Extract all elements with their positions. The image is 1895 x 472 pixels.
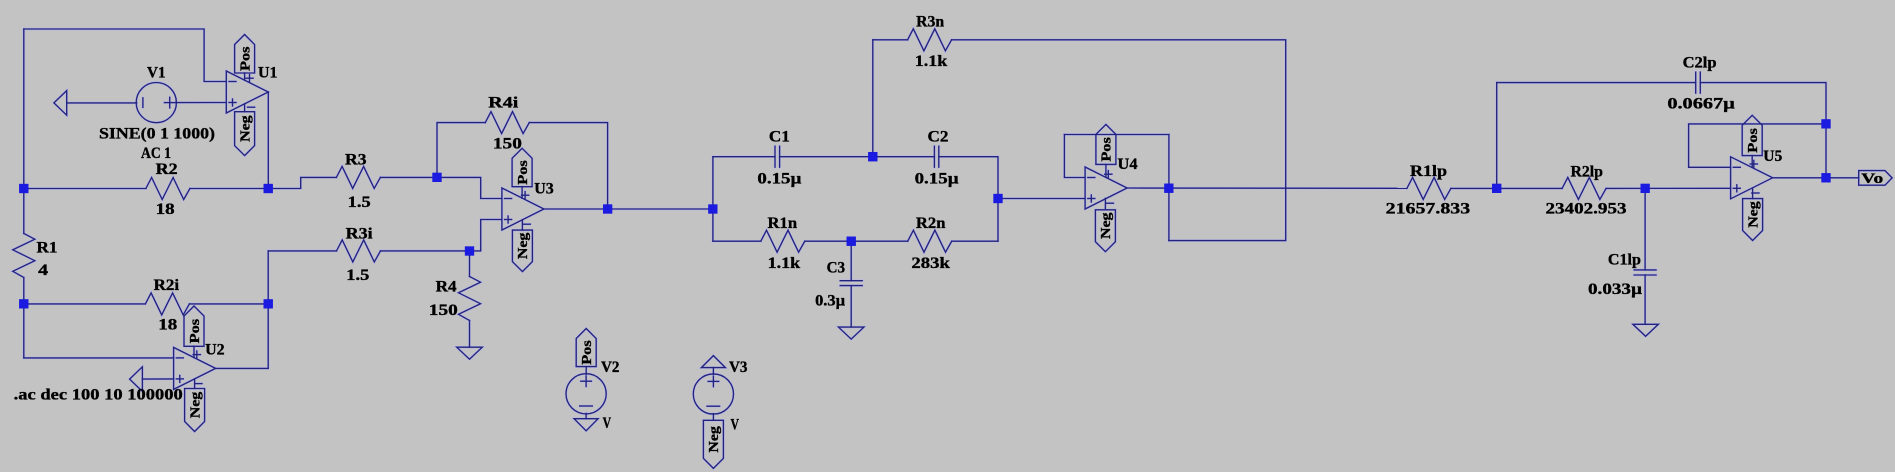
svg-text:0.033µ: 0.033µ	[1588, 281, 1642, 298]
svg-text:18: 18	[158, 316, 177, 333]
svg-text:C1lp: C1lp	[1608, 252, 1641, 269]
svg-text:R2n: R2n	[916, 215, 946, 232]
svg-text:4: 4	[38, 262, 48, 279]
svg-text:18: 18	[156, 201, 175, 218]
svg-text:283k: 283k	[911, 255, 950, 272]
svg-text:21657.833: 21657.833	[1386, 200, 1471, 217]
svg-text:.ac dec 100 10 100000: .ac dec 100 10 100000	[14, 386, 183, 403]
svg-text:Pos: Pos	[1746, 128, 1761, 153]
svg-text:C1: C1	[769, 128, 790, 145]
svg-text:Neg: Neg	[188, 392, 203, 419]
svg-text:150: 150	[493, 135, 522, 152]
svg-text:C2: C2	[928, 128, 949, 145]
svg-text:R2lp: R2lp	[1570, 163, 1603, 180]
svg-text:V2: V2	[601, 359, 620, 376]
svg-text:C2lp: C2lp	[1683, 54, 1717, 71]
svg-text:C3: C3	[827, 260, 846, 277]
svg-text:R3i: R3i	[346, 226, 374, 243]
svg-text:U3: U3	[534, 181, 554, 198]
svg-text:Neg: Neg	[1099, 213, 1114, 240]
svg-text:Vo: Vo	[1861, 171, 1883, 187]
svg-text:V1: V1	[147, 65, 166, 82]
svg-text:V: V	[603, 415, 612, 432]
svg-text:Neg: Neg	[1746, 201, 1761, 228]
svg-text:150: 150	[429, 302, 458, 319]
svg-text:R1: R1	[37, 240, 58, 257]
svg-text:1.5: 1.5	[348, 194, 371, 211]
svg-text:R1n: R1n	[768, 215, 798, 232]
svg-text:R2i: R2i	[154, 277, 180, 294]
svg-text:V3: V3	[729, 359, 748, 376]
svg-text:Pos: Pos	[238, 46, 253, 71]
svg-text:Neg: Neg	[707, 426, 722, 453]
svg-text:R1lp: R1lp	[1410, 163, 1447, 180]
svg-text:0.3µ: 0.3µ	[815, 293, 845, 310]
svg-text:0.15µ: 0.15µ	[757, 170, 801, 187]
svg-text:23402.953: 23402.953	[1546, 201, 1627, 218]
svg-text:1.1k: 1.1k	[915, 53, 948, 70]
svg-text:Pos: Pos	[188, 318, 203, 343]
svg-text:Pos: Pos	[580, 340, 595, 365]
svg-text:U2: U2	[205, 342, 225, 359]
svg-text:R3: R3	[345, 151, 367, 168]
svg-text:V: V	[731, 416, 740, 433]
svg-text:Pos: Pos	[1100, 137, 1115, 162]
svg-text:R4i: R4i	[488, 95, 519, 112]
svg-text:U4: U4	[1118, 156, 1138, 173]
svg-text:SINE(0 1 1000): SINE(0 1 1000)	[99, 126, 215, 143]
svg-text:Neg: Neg	[238, 115, 253, 142]
svg-text:1.5: 1.5	[346, 267, 369, 284]
svg-text:1.1k: 1.1k	[768, 255, 801, 272]
svg-text:AC 1: AC 1	[141, 145, 171, 162]
svg-text:R4: R4	[436, 279, 457, 296]
svg-text:Pos: Pos	[516, 160, 531, 185]
svg-text:U1: U1	[258, 64, 278, 81]
svg-text:R2: R2	[156, 161, 178, 178]
svg-text:Neg: Neg	[516, 233, 531, 260]
svg-text:R3n: R3n	[916, 13, 944, 30]
svg-text:U5: U5	[1763, 148, 1782, 165]
svg-text:0.15µ: 0.15µ	[915, 170, 959, 187]
svg-text:0.0667µ: 0.0667µ	[1667, 96, 1735, 113]
